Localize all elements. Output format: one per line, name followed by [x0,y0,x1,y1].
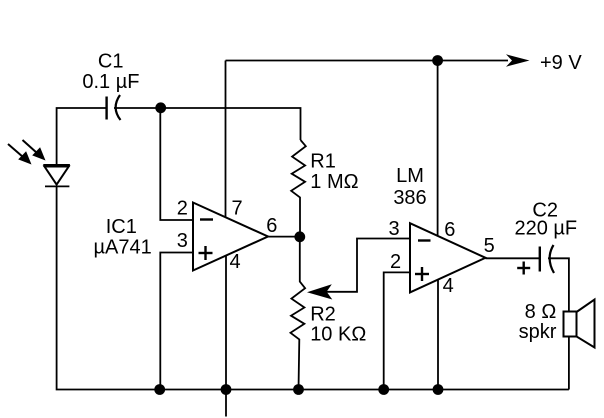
+9V arrowhead [506,54,530,66]
wire: LM386 pin4 to ground [437,280,439,390]
svg-text:spkr: spkr [519,321,557,343]
svg-text:4: 4 [443,275,454,297]
photodiode [43,165,70,186]
wire: C2 to speaker [548,258,569,389]
svg-text:µA741: µA741 [93,237,151,259]
node: ground dot pin3 IC1 [154,384,165,395]
wire: LM386 output to C2 [486,257,540,259]
svg-text:R1: R1 [310,151,336,173]
resistor R2 (pot) [291,237,306,390]
svg-text:10 KΩ: 10 KΩ [310,324,366,346]
wire: +9V top rail [226,60,509,62]
capacitor C2 polarity plus [517,262,530,275]
wire: LM386 pin6 to +9V [437,61,439,237]
capacitor C2 [540,245,554,273]
node: ground dot pin4 IC1 [221,384,232,395]
wire: LM386 pin2 to ground [384,272,410,389]
photodiode light arrow 2 [23,140,46,161]
svg-text:3: 3 [177,230,188,252]
wire: bottom ground rail [159,389,569,391]
op-amp U1 IC1 [193,203,268,271]
wire: IC1 pin2 input [160,108,193,220]
node: ground dot pin4 LM386 [433,384,444,395]
photodiode light arrow 1 [8,144,32,165]
svg-text:220 µF: 220 µF [514,217,577,239]
capacitor C1 [107,95,121,120]
svg-text:7: 7 [231,198,242,220]
svg-text:3: 3 [388,218,399,240]
resistor R1 [291,140,306,237]
wire: R2 wiper to LM386 pin3 [326,239,410,292]
op-amp U2 LM386 [410,223,486,292]
svg-text:R2: R2 [310,304,336,326]
wire: photodiode cathode down to ground rail [57,186,160,389]
svg-text:6: 6 [266,215,277,237]
svg-text:8 Ω: 8 Ω [525,301,557,323]
wire: C1 to R1 top [114,108,301,140]
svg-text:+9 V: +9 V [540,52,582,74]
svg-text:C1: C1 [98,51,124,73]
svg-text:6: 6 [444,219,455,241]
node: ground dot pin2 LM386 [378,384,389,395]
svg-text:2: 2 [177,198,188,220]
svg-text:1 MΩ: 1 MΩ [310,171,358,193]
svg-text:5: 5 [484,235,495,257]
wiper arrowhead [307,284,332,299]
svg-text:4: 4 [229,251,240,273]
svg-text:0.1 µF: 0.1 µF [82,71,139,93]
svg-text:386: 386 [393,187,426,209]
svg-text:IC1: IC1 [106,216,137,238]
wire: IC1 output [268,236,300,238]
wire: stub below rail at pin4 [225,390,227,417]
wire: photodiode to C1 [57,108,107,165]
wire: IC1 pin4 to ground [225,255,227,390]
node: ground dot R2 [293,384,304,395]
node A: C1 / pin2 junction dot [155,102,166,113]
svg-text:LM: LM [396,165,424,187]
wire: IC1 pin3 input to ground [160,253,193,390]
wire: IC1 pin7 to +9V [225,61,227,218]
speaker SPKR [564,300,595,348]
node: output junction dot [294,231,305,242]
svg-text:2: 2 [390,251,401,273]
node: top rail junction dot [432,55,443,66]
